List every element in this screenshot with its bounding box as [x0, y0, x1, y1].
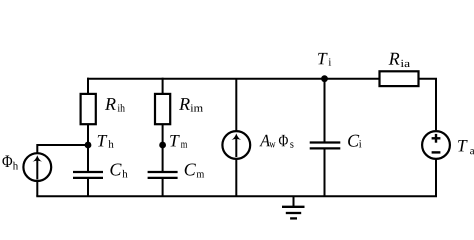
wire R_ih bottom to node T_h [87, 124, 89, 145]
wire R_ih top stub [87, 78, 89, 95]
node T_m [159, 135, 187, 148]
resistor R_ia [380, 53, 419, 86]
wire T_a to bottom bus [435, 159, 437, 196]
wire C_h to bottom bus [87, 179, 89, 196]
wire T_h to C_h [87, 145, 89, 171]
capacitor C_h [73, 163, 128, 177]
wire A_w source to bottom bus [235, 159, 237, 197]
wire R_im top stub [162, 78, 164, 95]
capacitor C_i [310, 135, 362, 149]
wire C_i to bottom bus [324, 149, 326, 196]
node T_h [85, 135, 114, 148]
wire bottom bus [36, 195, 437, 197]
wire Phi_h to bottom bus [36, 181, 38, 196]
wire T_i down to C_i [324, 79, 326, 142]
wire R_im bottom to node T_m [162, 124, 164, 145]
wire top bus right of R_ia to right corner [419, 79, 437, 130]
wire A_w source top stub [235, 79, 237, 132]
resistor R_ih [81, 94, 125, 124]
wire Phi_h top horizontal to T_h [37, 145, 88, 153]
resistor R_im [155, 94, 203, 124]
wire top bus [87, 78, 380, 80]
node T_i [318, 53, 331, 82]
wire T_m to C_m [162, 145, 164, 171]
wire C_m to bottom bus [162, 179, 164, 196]
capacitor C_m [148, 163, 205, 177]
current source Phi_h [2, 153, 51, 181]
voltage source T_a [422, 131, 474, 159]
ground [282, 196, 305, 218]
current source A_w Phi_s [222, 131, 293, 159]
